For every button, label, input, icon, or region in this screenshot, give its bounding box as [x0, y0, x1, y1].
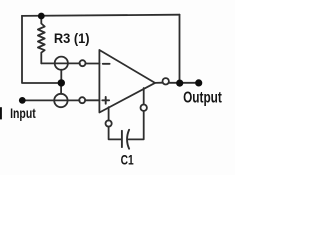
svg-text:C1: C1 [121, 152, 134, 168]
svg-text:Input: Input [10, 106, 36, 122]
svg-text:Output: Output [183, 88, 222, 106]
svg-text:R3 (1): R3 (1) [54, 31, 90, 47]
